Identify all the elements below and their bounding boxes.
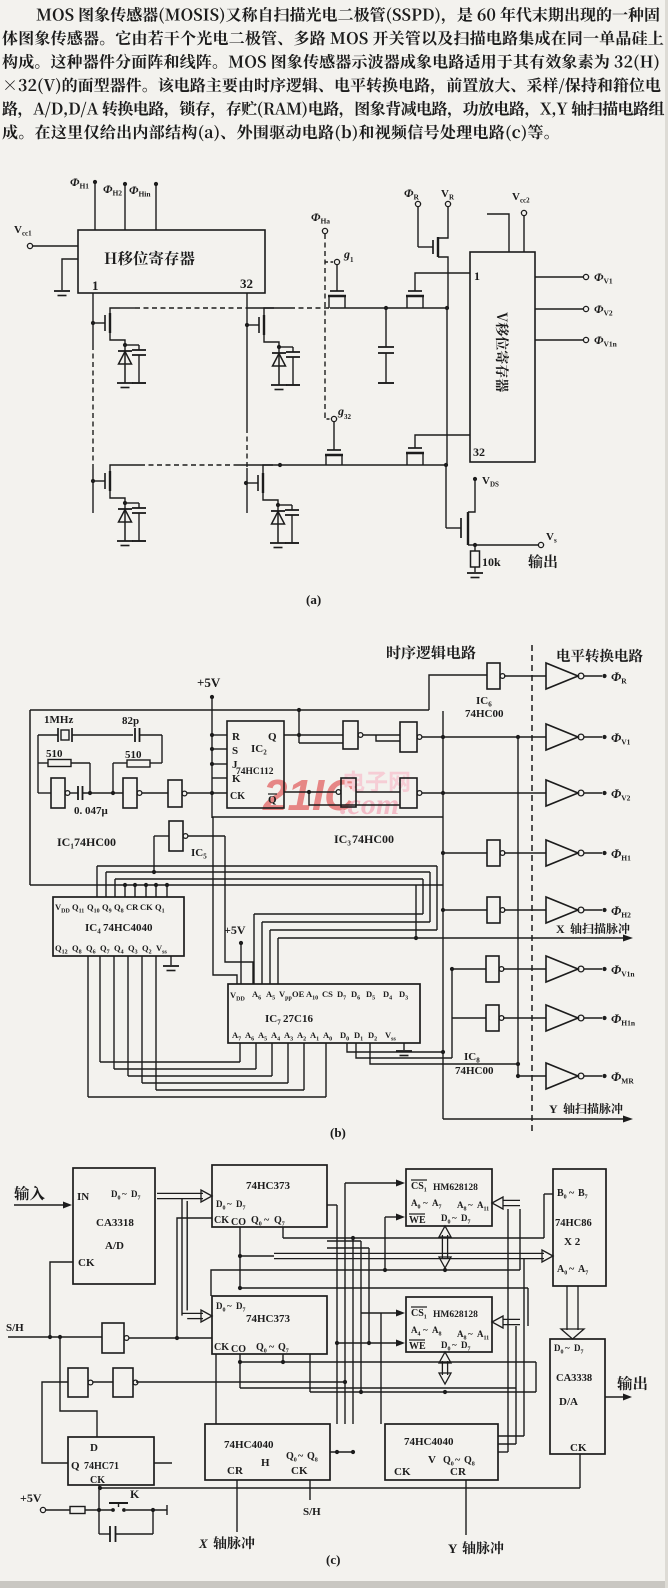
svg-text:ΦH1: ΦH1 [70,175,89,191]
node Vcc2 [512,191,530,252]
wire gate7 down [344,1382,346,1424]
wire SH line [8,1335,102,1339]
svg-text:Q0: Q0 [251,1215,262,1228]
gate IC1c [142,780,227,807]
ground at Vcc1 [54,291,70,296]
svg-text:VDS: VDS [482,475,499,489]
paragraph line 2 [2,30,663,45]
H shift register box [78,230,265,293]
label level conversion circuit [558,649,643,663]
svg-text:82p: 82p [122,715,139,727]
svg-text:VR: VR [441,188,455,202]
svg-text:D5: D5 [366,989,375,1002]
svg-text:CK: CK [90,1475,105,1486]
wire column pin1 [91,293,95,513]
svg-text:S: S [232,745,238,757]
svg-text:CK: CK [230,791,245,802]
svg-text:(a): (a) [306,592,321,607]
HM628128 no2 box [406,1297,492,1353]
svg-text:D0: D0 [111,1189,121,1202]
svg-text:D7: D7 [131,1189,141,1202]
svg-text:ΦH1n: ΦH1n [611,1011,636,1028]
svg-text:74HC4040: 74HC4040 [103,922,153,934]
svg-text:D4: D4 [383,989,392,1002]
svg-text:ΦV1: ΦV1 [611,730,631,747]
svg-text:OE: OE [292,989,305,999]
transistor output follower [446,481,475,545]
svg-text:D0: D0 [340,1030,349,1043]
svg-text:27C16: 27C16 [283,1013,313,1025]
svg-text:D7: D7 [236,1199,246,1212]
wire IC5 taps [152,836,156,874]
buffer PhiH1n [546,1005,636,1031]
svg-text:A8: A8 [432,1325,442,1338]
svg-text:74HC00: 74HC00 [74,835,116,849]
svg-text:g: g [343,247,350,261]
svg-text:R: R [232,731,241,743]
ground at IC4 [163,956,179,971]
svg-text:VDD: VDD [55,902,70,915]
crystal 1MHz [38,714,133,742]
svg-text:CK: CK [394,1466,411,1478]
svg-text:1: 1 [350,256,354,264]
svg-text:Q12: Q12 [55,943,68,956]
svg-text:ΦV2: ΦV2 [594,302,613,318]
wire Q output 74HC71 [42,1382,68,1463]
wire long vertical bus443 [442,711,444,1119]
svg-text:K: K [130,1487,140,1501]
node VDS [473,475,499,489]
svg-text:Vs: Vs [546,531,557,545]
74HC71 box [68,1437,154,1486]
wire 4040H Q stubs [330,1450,355,1454]
svg-text:CS1: CS1 [411,1308,427,1321]
transistor cell Q1 (pin1 top) [93,308,146,388]
V shift register box [470,252,535,462]
wire debounce loop [99,1510,153,1534]
wire right vbus1 [498,1209,508,1452]
gate IC8b [441,897,546,923]
svg-text:CK: CK [214,1342,229,1353]
wire Vcc1 ground branch [62,259,78,290]
svg-text:10k: 10k [482,555,501,569]
node +5V bottom [20,1491,70,1513]
svg-text:A0: A0 [557,1264,567,1277]
label input [14,1186,45,1201]
svg-text:(b): (b) [330,1125,346,1140]
node PhiHin [129,182,158,230]
node PhiV1 out [535,270,613,286]
transistor reset [418,207,448,309]
svg-text:CA3338: CA3338 [556,1373,592,1384]
transistor row1 right [406,273,470,308]
transistor g32 left [325,422,343,465]
buffer PhiV2 [546,780,631,806]
svg-text:D3: D3 [399,989,408,1002]
node PhiH2 [103,182,127,230]
svg-text:IC4: IC4 [85,922,101,936]
wire 71 right stub [154,1462,172,1464]
svg-text:~: ~ [569,1188,575,1199]
74HC373 no2 box [212,1296,327,1355]
oscillator outer box [30,710,443,885]
buffer PhiH2 [546,897,631,923]
wire inner box bottom [212,816,443,818]
gate IC8a [441,840,546,866]
bus arrow AD to 373no1 [157,1192,203,1194]
svg-text:CR: CR [227,1465,244,1477]
watermark dianziwang [345,771,410,792]
wire 373no2 CK down [215,1354,217,1424]
node g32 [331,404,351,422]
svg-text:A6: A6 [245,1030,254,1043]
node Vcc1 [14,224,78,249]
wire Vcc2 L branch [487,214,509,252]
wire Y pulse [465,1480,467,1535]
gate IC8c [452,956,546,982]
svg-text:A1: A1 [310,1030,319,1043]
svg-text:Q11: Q11 [72,902,84,915]
svg-text:ΦHin: ΦHin [129,183,151,199]
svg-text:D0: D0 [441,1340,451,1353]
wire CK 71 down [98,1485,100,1510]
wire mid vbus4 [327,1241,363,1394]
svg-text:74HC373: 74HC373 [246,1313,291,1325]
svg-text:~: ~ [423,1198,428,1208]
svg-text:D2: D2 [368,1030,377,1043]
svg-text:CA3318: CA3318 [96,1217,134,1229]
bus arrow AD to 373no2 [182,1199,212,1322]
wire SH2 [303,1480,321,1518]
svg-text:Vcc2: Vcc2 [512,191,530,205]
wire X pulse [236,1480,238,1532]
resistor 510 left [38,748,90,767]
svg-text:D7: D7 [461,1213,471,1226]
svg-text:0. 047μ: 0. 047μ [74,805,109,817]
ground at IC7 [396,1043,412,1056]
svg-text:74HC86: 74HC86 [555,1218,592,1229]
capacitor 82p [122,715,162,742]
74HC86 box [553,1169,606,1286]
wire MR feed [518,1075,546,1077]
bus arrow to 86 A [238,1227,553,1262]
wire IC8cd link [450,967,454,1018]
wire res to node [85,1508,113,1512]
transistor g1 left [328,265,346,308]
switch K [109,1487,140,1512]
resistor bottom [70,1507,85,1514]
wire down to IC7 left [213,817,237,984]
IC4 74HC4040 box [53,897,184,956]
wire databus2 [211,1209,520,1296]
svg-text:Q0: Q0 [286,1451,297,1464]
wire switch to tick [126,1505,167,1515]
svg-text:Q: Q [71,1460,80,1472]
svg-text:Vpp: Vpp [279,989,292,1002]
svg-text:~: ~ [565,1343,570,1353]
svg-text:A6: A6 [252,989,261,1002]
svg-text:~: ~ [452,1213,457,1223]
gate IC3b [363,722,546,752]
svg-text:A0: A0 [323,1030,332,1043]
transistor cell Q4 (pin32 bottom) [246,465,299,548]
svg-text:32: 32 [473,445,485,459]
svg-text:IC8: IC8 [464,1051,480,1065]
node VR [441,188,455,207]
svg-text:CK: CK [291,1465,308,1477]
arrow into RAM1 WE [383,1214,405,1273]
wire mid vbus3 [351,1236,355,1424]
svg-text:+5V: +5V [20,1491,42,1505]
svg-text:WE: WE [409,1341,426,1352]
wire mid vbus6 [380,1313,382,1424]
buffer PhiMR [546,1063,634,1089]
svg-text:+5V: +5V [197,675,221,690]
svg-text:~: ~ [569,1264,575,1275]
svg-text:~: ~ [227,1199,232,1209]
svg-text:CO: CO [231,1217,246,1228]
wire bus under IC4 line1 [100,956,240,1062]
svg-text:ΦV1n: ΦV1n [611,962,635,979]
node PhiH1 [70,175,97,230]
IC2 74HC112 box [227,721,284,808]
svg-text:ΦR: ΦR [611,669,627,686]
capacitor row1 mid [378,309,394,383]
HM628128 no1 box [406,1169,492,1226]
paragraph line 4 [5,77,661,94]
svg-text:D7: D7 [461,1340,471,1353]
label output c [617,1376,647,1391]
wire bus under IC4 line3 [128,956,272,1076]
svg-text:CK: CK [78,1257,95,1269]
transistor cell Q3 (pin1 bottom) [93,465,146,546]
wire PhiHa dashed [325,234,333,419]
svg-text:Q8: Q8 [114,902,124,915]
svg-text:A4: A4 [411,1325,421,1338]
gate IC5 [154,821,225,851]
svg-text:CK: CK [140,902,153,912]
paragraph line 5 [2,101,664,118]
wire bus over IC7 line3 [270,930,437,984]
svg-text:IN: IN [77,1191,89,1203]
svg-text:Q7: Q7 [100,943,110,956]
label Y axis pulse [448,1541,504,1556]
svg-text:Y: Y [549,1102,558,1116]
wire databus1 [283,1194,553,1238]
svg-text:1: 1 [92,278,99,293]
svg-text:A5: A5 [258,1030,267,1043]
wire D1 to gates [356,1018,452,1058]
wire Q tap from top edge [297,708,343,743]
label Y axis scan pulse [549,1102,623,1116]
paragraph line 3 [2,54,658,71]
svg-text:74HC71: 74HC71 [84,1461,119,1472]
wire D input 74HC71 [60,1337,97,1437]
svg-text:74HC4040: 74HC4040 [404,1436,454,1448]
svg-text:D: D [90,1442,98,1454]
svg-text:D0: D0 [441,1213,451,1226]
svg-text:1MHz: 1MHz [44,714,73,726]
gate Q buffer1 [68,1368,93,1397]
wire bus over IC4 line2 [106,872,430,922]
buffer PhiR [546,663,627,689]
svg-text:CR: CR [126,902,139,912]
gate IC3a [284,721,363,749]
svg-text:~: ~ [468,1200,473,1210]
wire K stub [212,777,227,779]
bus arrow RAM2 data [441,1361,443,1375]
resistor 510 right [113,749,162,767]
svg-text:A7: A7 [578,1264,588,1277]
node Vs output [473,531,557,548]
svg-text:Q1: Q1 [155,902,165,915]
svg-text:74HC4040: 74HC4040 [224,1439,274,1451]
svg-text:32: 32 [344,413,352,421]
svg-text:S/H: S/H [303,1506,321,1518]
svg-text:IC3: IC3 [334,832,351,848]
arrow into RAM2 CS [361,1310,405,1317]
wire R stub [212,734,227,736]
svg-text:A8: A8 [457,1200,467,1213]
gate IC6 [429,663,546,710]
gate IC3d [307,778,546,808]
74HC373 no1 box [212,1165,327,1228]
wire long vertical bus518 [516,737,520,1078]
svg-text:ΦH2: ΦH2 [611,903,631,920]
label X axis scan pulse [556,922,630,936]
capacitor 0.047u [70,786,123,817]
svg-text:CS: CS [322,989,333,999]
transistor row32 right [406,435,470,465]
wire CK 3318 [50,1262,73,1337]
svg-text:D7: D7 [236,1301,246,1314]
gate IC1b [123,778,142,808]
node PhiR [404,186,421,207]
wire right vbus3 [498,1259,524,1436]
svg-text:74HC00: 74HC00 [352,832,394,846]
wire input arrow [14,1202,72,1209]
svg-text:~: ~ [269,1342,275,1353]
scan edge right [665,0,668,1588]
capacitor debounce [110,1526,116,1542]
wire bus over IC7 line2 [262,922,430,984]
svg-text:Q7: Q7 [278,1342,289,1355]
gate IC3c [284,778,356,807]
svg-text:HM628128: HM628128 [433,1310,478,1320]
svg-text:A2: A2 [297,1030,306,1043]
paragraph line 6 [2,124,549,141]
svg-text:IC7: IC7 [265,1013,281,1027]
svg-text:CS1: CS1 [411,1181,427,1194]
svg-text:A7: A7 [232,1030,241,1043]
wire IC5 to IC7 [225,836,253,984]
wire D0 to gates [347,1043,445,1054]
svg-text:ΦHa: ΦHa [311,210,330,226]
svg-text:D0: D0 [216,1301,226,1314]
svg-text:CR: CR [450,1466,467,1478]
svg-text:Vss: Vss [385,1030,396,1043]
svg-text:Q: Q [268,731,277,743]
wire bus y1388 [238,1360,516,1388]
node PhiV1n out [535,333,618,349]
svg-text:(c): (c) [326,1552,340,1567]
svg-text:CO: CO [231,1344,246,1355]
node +5V IC7 [224,923,246,984]
svg-text:Q10: Q10 [87,902,100,915]
svg-text:B7: B7 [578,1188,588,1201]
wire databus5 [310,1354,536,1394]
svg-text:Q0: Q0 [256,1342,267,1355]
buffer PhiV1n [546,956,635,982]
svg-text:~: ~ [227,1301,232,1311]
svg-text:Y: Y [448,1541,458,1556]
svg-text:VDD: VDD [230,990,245,1003]
bus arrow 86 to 3338 [561,1286,584,1339]
svg-text:Q4: Q4 [114,943,124,956]
label IC1 74HC00 [57,835,116,851]
svg-text:HM628128: HM628128 [433,1183,478,1193]
svg-text:Q8: Q8 [307,1451,318,1464]
node PhiV2 out [535,302,613,318]
gate IC1a [38,778,70,808]
svg-text:ΦH2: ΦH2 [103,182,122,198]
label IC8 74HC00 [455,1051,494,1077]
wire CK 3338 long [98,1454,580,1490]
svg-text:~: ~ [455,1455,461,1466]
svg-text:A5: A5 [266,989,275,1002]
arrow into RAM2 WE [335,1340,405,1347]
svg-text:A0: A0 [411,1198,421,1211]
IC7 27C16 box [228,984,420,1043]
label IC3 74HC00 [334,832,394,848]
svg-text:A/D: A/D [105,1240,124,1252]
svg-text:510: 510 [125,749,142,761]
svg-text:ΦR: ΦR [404,186,419,202]
wire right vbus2 [498,1326,516,1444]
74HC4040 V box [385,1424,498,1480]
label IC6 74HC00 [465,695,504,720]
separator dashed line [531,645,533,1131]
svg-text:A11: A11 [477,1329,489,1342]
svg-text:X 2: X 2 [564,1236,581,1248]
svg-text:g: g [337,404,344,418]
svg-text:D1: D1 [354,1030,363,1043]
svg-text:IC6: IC6 [476,695,492,709]
svg-text:WE: WE [409,1215,426,1226]
svg-text:X: X [556,922,565,936]
paragraph line 1 [36,7,659,24]
gate SH buffer [102,1323,212,1353]
wire output arrow [605,1394,632,1401]
svg-text:32: 32 [240,276,253,291]
transistor cell Q2 (pin32 top) [247,308,300,390]
svg-text:CK: CK [214,1215,229,1226]
svg-text:CK: CK [570,1442,587,1454]
wire Y scan line [443,1116,633,1123]
svg-text:Q6: Q6 [86,943,96,956]
CA3338 D/A box [550,1339,605,1454]
wire J stub [212,763,227,765]
wire mid vbus2 [343,1183,347,1384]
svg-text:A7: A7 [432,1198,442,1211]
svg-text:IC1: IC1 [57,835,74,851]
svg-text:ΦH1: ΦH1 [611,846,631,863]
wire bus under IC4 line6 [88,956,326,1097]
node g1 [334,247,354,265]
wire top row bus [120,306,449,310]
svg-text:ΦV1: ΦV1 [594,270,613,286]
svg-text:~: ~ [468,1329,473,1339]
